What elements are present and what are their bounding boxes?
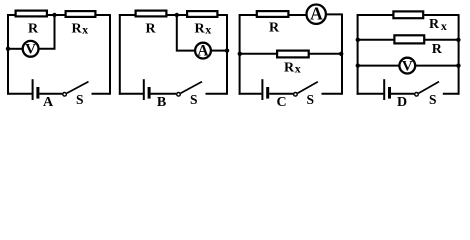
wire: circuit A left vertical	[7, 14, 9, 95]
switch S pivot (circuit C)	[294, 93, 298, 97]
svg-text:R: R	[269, 21, 280, 36]
switch S pivot (circuit A)	[63, 93, 67, 97]
svg-text:D: D	[397, 95, 407, 110]
wire: circuit A right vertical	[109, 14, 111, 95]
svg-text:S: S	[429, 92, 437, 107]
node: junction dot middle-right (circuit C)	[339, 52, 343, 56]
svg-text:x: x	[82, 23, 88, 37]
switch S blade (circuit C)	[298, 82, 318, 93]
switch S blade (circuit D)	[419, 82, 439, 94]
battery short plate (circuit D)	[388, 87, 391, 99]
svg-text:R: R	[284, 60, 295, 75]
node: junction dot right (circuit B)	[225, 48, 229, 52]
resistor R (circuit D)	[394, 35, 424, 43]
voltmeter V (circuit A)	[23, 41, 39, 58]
wire: circuit A bottom left	[7, 93, 32, 95]
svg-text:R: R	[194, 22, 205, 37]
battery long plate (circuit D)	[383, 79, 385, 100]
wire: circuit C left vertical	[239, 14, 241, 95]
wire: circuit B bottom right	[206, 93, 228, 95]
battery short plate (circuit B)	[148, 87, 151, 99]
wire: circuit D third horizontal	[358, 65, 459, 67]
wire: circuit D second horizontal	[358, 39, 459, 41]
node: junction dot third-right (circuit D)	[456, 63, 460, 67]
wire: circuit C bottom right	[322, 93, 343, 95]
svg-text:C: C	[277, 95, 287, 110]
switch S blade (circuit A)	[67, 82, 89, 94]
svg-text:R: R	[145, 22, 156, 37]
wire: circuit B bottom middle	[151, 93, 177, 95]
resistor R (circuit A)	[16, 11, 47, 17]
svg-text:R: R	[28, 22, 39, 37]
resistor Rx (circuit B)	[187, 11, 217, 17]
resistor Rx (circuit C)	[277, 51, 309, 58]
battery short plate (circuit A)	[36, 87, 39, 99]
svg-text:V: V	[402, 58, 413, 74]
battery long plate (circuit B)	[143, 79, 145, 100]
resistor R (circuit C)	[257, 11, 289, 17]
label Rx (circuit C)	[284, 60, 301, 75]
battery short plate (circuit C)	[266, 87, 269, 99]
switch S pivot (circuit B)	[177, 93, 181, 97]
switch S blade (circuit B)	[181, 82, 202, 94]
label Rx (circuit B)	[194, 22, 211, 37]
wire: circuit C top right stub	[325, 13, 342, 15]
wire: circuit D top horizontal	[357, 14, 459, 16]
resistor R (circuit B)	[136, 11, 167, 17]
node: junction dot middle-left (circuit C)	[238, 52, 242, 56]
svg-text:x: x	[441, 19, 447, 33]
node: junction dot left (circuit A)	[6, 47, 10, 51]
svg-text:B: B	[157, 95, 166, 110]
wire: circuit D bottom middle	[391, 93, 414, 95]
svg-text:x: x	[205, 23, 211, 37]
svg-text:R: R	[71, 22, 82, 37]
svg-text:A: A	[197, 43, 209, 60]
resistor Rx (circuit A)	[66, 11, 96, 17]
wire: voltmeter left lead (circuit A)	[8, 48, 23, 50]
node: junction dot second-right (circuit D)	[456, 38, 460, 42]
wire: circuit D bottom right	[443, 93, 459, 95]
node: junction dot top (circuit A)	[52, 13, 56, 17]
svg-text:S: S	[307, 92, 315, 107]
switch S pivot (circuit D)	[415, 93, 419, 97]
svg-text:V: V	[25, 42, 36, 58]
wire: circuit B right vertical	[226, 14, 228, 95]
wire: ammeter riser and left lead (circuit B)	[177, 15, 195, 51]
wire: circuit A top horizontal	[7, 14, 110, 16]
svg-text:A: A	[43, 95, 54, 110]
wire: circuit A bottom middle	[39, 93, 62, 95]
svg-text:R: R	[432, 42, 443, 57]
wire: circuit D bottom left	[357, 93, 384, 95]
node: junction dot top (circuit B)	[175, 13, 179, 17]
ammeter A (circuit B)	[195, 43, 211, 60]
wire: circuit D left vertical	[357, 14, 359, 95]
wire: circuit D right vertical	[458, 14, 460, 95]
node: junction dot third-left (circuit D)	[356, 63, 360, 67]
resistor Rx (circuit D)	[393, 11, 423, 18]
wire: ammeter right lead (circuit B)	[211, 50, 227, 52]
svg-text:R: R	[429, 17, 440, 32]
battery long plate (circuit A)	[32, 79, 34, 100]
svg-text:A: A	[310, 4, 323, 24]
wire: circuit A bottom right	[92, 93, 111, 95]
svg-text:S: S	[76, 92, 84, 107]
wire: voltmeter right lead and riser (circuit A)	[39, 15, 55, 49]
svg-text:x: x	[295, 62, 301, 76]
wire: circuit C middle horizontal	[240, 53, 342, 55]
ammeter A (circuit C)	[307, 4, 326, 24]
wire: circuit B bottom left	[119, 93, 143, 95]
svg-text:S: S	[190, 92, 198, 107]
wire: circuit C top horizontal	[239, 14, 307, 16]
wire: circuit C bottom middle	[269, 93, 293, 95]
wire: circuit C bottom left	[239, 93, 262, 95]
voltmeter V (circuit D)	[399, 58, 415, 75]
battery long plate (circuit C)	[261, 79, 263, 100]
wire: circuit B top horizontal	[119, 14, 227, 16]
wire: circuit B left vertical	[119, 14, 121, 95]
label Rx (circuit D)	[429, 17, 447, 33]
label Rx (circuit A)	[71, 22, 88, 37]
node: junction dot second-left (circuit D)	[356, 38, 360, 42]
wire: circuit C right vertical	[341, 14, 343, 95]
